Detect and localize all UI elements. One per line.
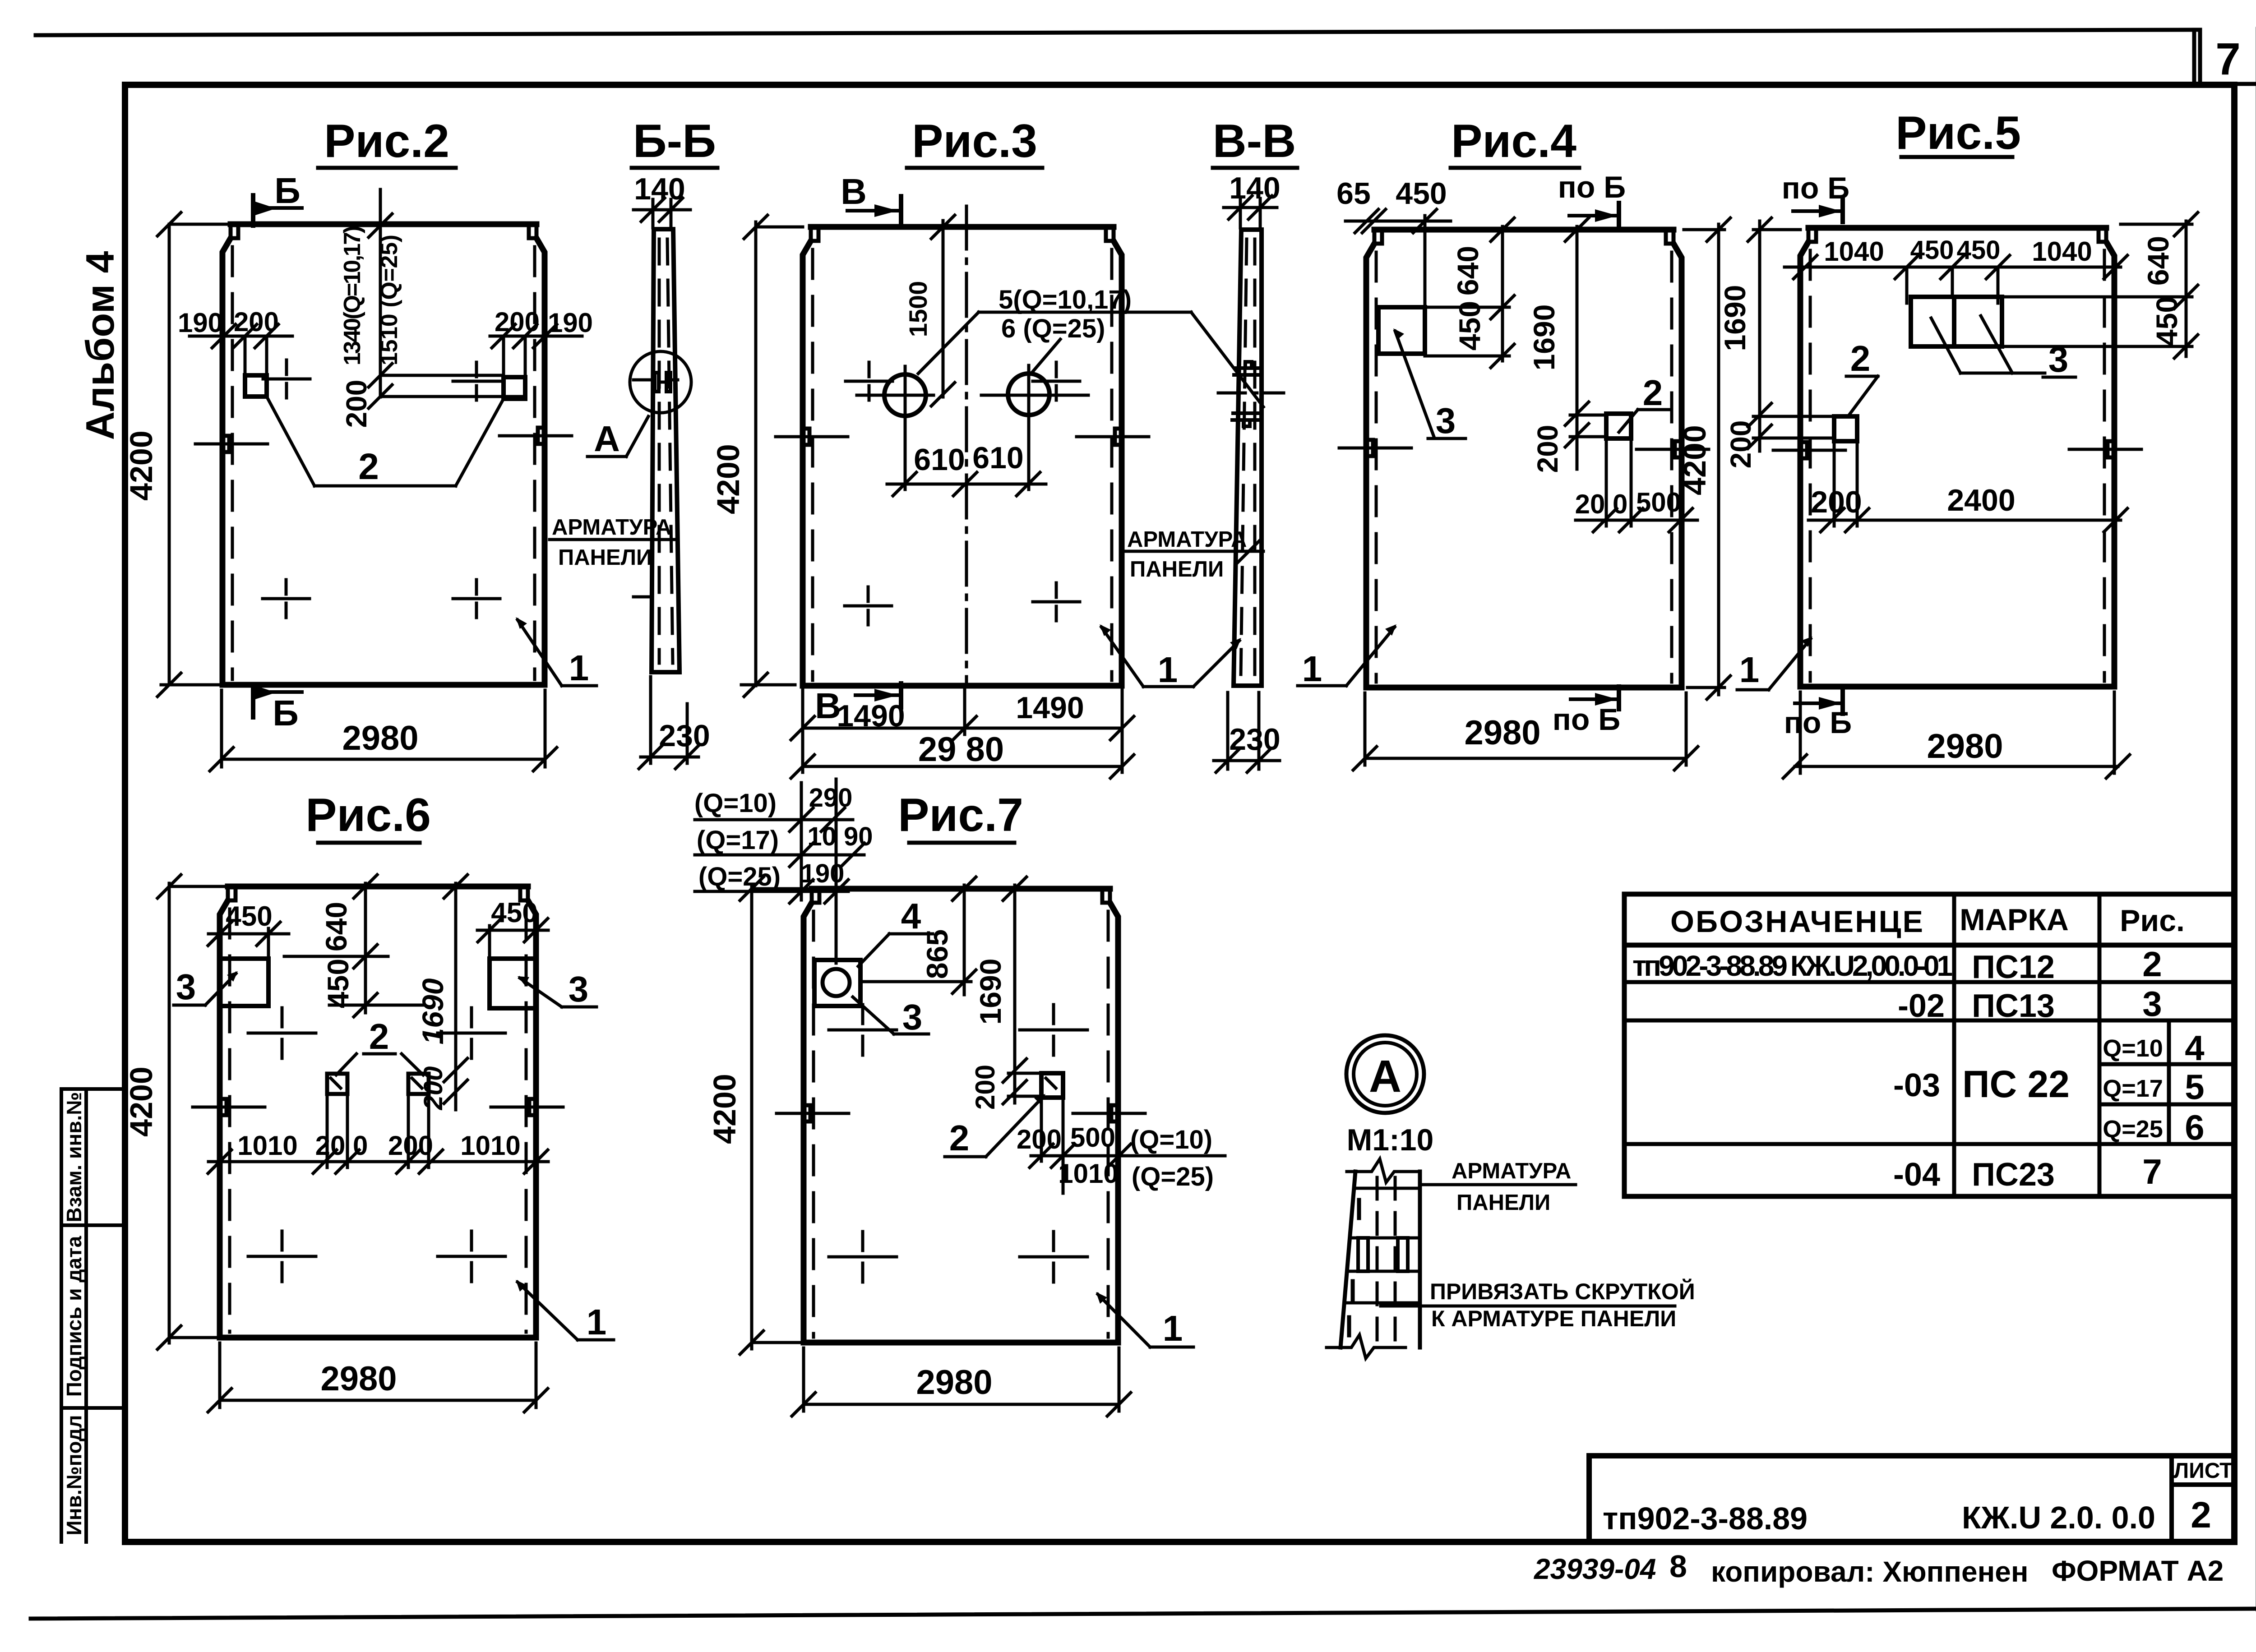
svg-text:190: 190 [178, 308, 223, 338]
svg-text:500: 500 [1070, 1122, 1115, 1153]
svg-text:тп902-3-88.89: тп902-3-88.89 [1603, 1501, 1808, 1536]
Рис.2 embed square 2 left [245, 375, 267, 397]
svg-text:ОБОЗНАЧЕНЦЕ: ОБОЗНАЧЕНЦЕ [1670, 904, 1923, 939]
Рис.5 dimension 2980 [1795, 692, 2118, 773]
Рис.6 embed square 3 right [490, 959, 536, 1008]
svg-text:610: 610 [914, 443, 965, 477]
svg-text:200: 200 [1531, 425, 1564, 473]
В-В mid connectors [1232, 362, 1262, 426]
svg-text:ПАНЕЛИ: ПАНЕЛИ [1130, 557, 1224, 581]
svg-text:200: 200 [495, 307, 540, 337]
svg-text:1010: 1010 [1058, 1158, 1118, 1189]
Рис.2 dim line [190, 336, 582, 377]
svg-text:ФОРМАТ А2: ФОРМАТ А2 [2052, 1555, 2224, 1587]
svg-text:8: 8 [1669, 1549, 1687, 1584]
Рис.4 section mark по Б bottom [1571, 697, 1619, 701]
svg-text:65: 65 [1336, 176, 1371, 211]
svg-text:1010: 1010 [237, 1131, 297, 1161]
svg-text:В: В [841, 171, 867, 212]
svg-text:АРМАТУРА: АРМАТУРА [1452, 1159, 1571, 1183]
Рис.4 panel outline [1374, 227, 1674, 233]
Б-Б tick on column [633, 595, 652, 599]
svg-text:5: 5 [2185, 1067, 2204, 1107]
svg-text:А: А [594, 419, 620, 459]
svg-text:1490: 1490 [1016, 691, 1084, 725]
svg-text:2980: 2980 [342, 719, 418, 757]
Рис.3 leader label 1 (shared with В-В) [1101, 627, 1239, 687]
svg-text:23939-04: 23939-04 [1534, 1553, 1656, 1585]
Рис.2 dimension 4200 [161, 224, 230, 685]
Рис.6 dimension 4200 [169, 883, 228, 1343]
В-В chain centreline [1218, 392, 1284, 395]
В-В dimension 230 [1214, 692, 1280, 769]
Рис.6 embed square 3 left [220, 959, 268, 1006]
svg-text:В-В: В-В [1213, 115, 1296, 167]
svg-text:АРМАТУРА: АРМАТУРА [552, 515, 671, 540]
svg-text:Рис.: Рис. [2120, 904, 2185, 938]
svg-text:Рис.7: Рис.7 [898, 789, 1023, 841]
svg-text:тп902-3-88.89 КЖ.U2,00.0-01: тп902-3-88.89 КЖ.U2,00.0-01 [1632, 950, 1953, 982]
Рис.2 panel outline [231, 221, 536, 227]
svg-text:Q=17: Q=17 [2103, 1075, 2163, 1102]
svg-text:по Б: по Б [1553, 702, 1620, 737]
svg-text:1040: 1040 [1824, 236, 1884, 267]
Рис.2 leader label 2 [267, 397, 504, 486]
Рис.2 dimension 2980 [222, 690, 545, 767]
Рис.6 embed small square 2 left [327, 1074, 347, 1094]
Рис.7 panel outline [812, 886, 1110, 892]
svg-text:-03: -03 [1893, 1067, 1940, 1103]
svg-text:7: 7 [2215, 34, 2241, 84]
svg-text:2: 2 [358, 446, 379, 487]
svg-text:1: 1 [1739, 650, 1760, 690]
svg-text:1: 1 [1302, 649, 1322, 689]
svg-text:1: 1 [1158, 650, 1178, 690]
svg-text:ПАНЕЛИ: ПАНЕЛИ [558, 545, 652, 570]
svg-text:копировал: Хюппенен: копировал: Хюппенен [1711, 1555, 2028, 1588]
svg-text:1: 1 [569, 648, 589, 688]
svg-text:КЖ.U 2.0. 0.0: КЖ.U 2.0. 0.0 [1962, 1500, 2155, 1535]
svg-text:по Б: по Б [1784, 706, 1852, 740]
svg-text:6: 6 [2185, 1107, 2204, 1147]
svg-text:3: 3 [2142, 984, 2162, 1024]
Рис.5 leader label 3 [1931, 316, 2076, 377]
outer bottom border line [31, 1609, 2256, 1619]
detail A sketch column [1341, 1172, 1420, 1347]
Рис.5 embed square 2 [1834, 416, 1857, 441]
svg-text:640: 640 [319, 902, 353, 951]
svg-text:по Б: по Б [1782, 171, 1849, 205]
В-В column outline [1234, 230, 1262, 686]
svg-text:865: 865 [920, 929, 954, 979]
svg-text:МАРКА: МАРКА [1960, 903, 2069, 937]
svg-text:4200: 4200 [124, 1066, 159, 1137]
svg-text:ПС23: ПС23 [1972, 1157, 2055, 1193]
Рис.7 dimension 2980 [804, 1348, 1119, 1411]
svg-text:1500: 1500 [904, 281, 932, 337]
top border line [36, 30, 2196, 35]
svg-text:(Q=25): (Q=25) [1132, 1162, 1214, 1191]
svg-text:2: 2 [2191, 1495, 2211, 1536]
title block outline [1589, 1456, 2234, 1542]
svg-text:500: 500 [1636, 487, 1681, 517]
svg-text:4200: 4200 [1677, 425, 1712, 495]
Рис.7 centre crosses [829, 1005, 1087, 1282]
left stamp strip [61, 1089, 125, 1542]
svg-text:1: 1 [587, 1302, 607, 1342]
svg-text:(Q=17): (Q=17) [697, 826, 779, 855]
svg-text:(Q=10): (Q=10) [694, 789, 777, 818]
svg-text:1510 (Q=25): 1510 (Q=25) [376, 235, 402, 365]
Рис.2 embed square 2 right [504, 377, 525, 399]
svg-text:ПРИВЯЗАТЬ СКРУТКОЙ: ПРИВЯЗАТЬ СКРУТКОЙ [1430, 1278, 1695, 1304]
svg-text:2: 2 [949, 1118, 970, 1158]
svg-text:(Q=25): (Q=25) [698, 862, 781, 891]
svg-text:Рис.3: Рис.3 [912, 115, 1037, 167]
svg-text:Б-Б: Б-Б [633, 115, 716, 167]
svg-text:200: 200 [388, 1131, 433, 1161]
svg-text:5(Q=10,17): 5(Q=10,17) [999, 285, 1132, 314]
Рис.6 dimension 2980 [220, 1343, 536, 1407]
svg-text:Рис.2: Рис.2 [324, 115, 449, 167]
Рис.5 section mark по Б bottom [1795, 701, 1843, 705]
svg-text:2: 2 [1643, 373, 1663, 413]
svg-text:Рис.4: Рис.4 [1451, 115, 1576, 167]
svg-text:140: 140 [1229, 171, 1280, 205]
svg-text:Взам. инв.№: Взам. инв.№ [62, 1092, 86, 1222]
Рис.6 panel outline [228, 884, 528, 890]
Рис.3 hole circle left [884, 374, 926, 416]
svg-text:3: 3 [569, 969, 589, 1009]
svg-text:-04: -04 [1893, 1157, 1940, 1193]
detail A tie rectangles [1358, 1238, 1368, 1271]
svg-text:2980: 2980 [1464, 714, 1540, 752]
svg-text:А: А [1369, 1051, 1401, 1102]
svg-text:-02: -02 [1898, 988, 1945, 1024]
Рис.4 embed square 3 [1378, 307, 1425, 354]
svg-text:ПС 22: ПС 22 [1962, 1063, 2070, 1105]
svg-text:4: 4 [901, 896, 921, 936]
svg-text:29 80: 29 80 [918, 730, 1004, 769]
svg-text:ПАНЕЛИ: ПАНЕЛИ [1456, 1191, 1550, 1215]
svg-text:200: 200 [970, 1065, 1000, 1110]
svg-text:7: 7 [2142, 1152, 2162, 1191]
title block cell ЛИСТ [2172, 1456, 2234, 1540]
Рис.3 centre crosses [845, 362, 1080, 625]
Рис.7 embed square 2 [1041, 1073, 1063, 1098]
svg-text:2400: 2400 [1947, 483, 2015, 517]
svg-text:Инв.№подл: Инв.№подл [62, 1415, 86, 1536]
sheet number box 7 [2194, 29, 2256, 84]
Рис.4 embed square 2 [1606, 414, 1631, 438]
Рис.4 leader label 3 [1395, 331, 1465, 438]
Рис.4 dimension 2980 [1365, 693, 1686, 765]
svg-text:640: 640 [1451, 246, 1484, 295]
svg-text:20 0: 20 0 [1575, 489, 1628, 519]
svg-text:230: 230 [659, 719, 710, 753]
svg-text:2980: 2980 [1927, 727, 2003, 766]
svg-text:1690: 1690 [974, 959, 1007, 1025]
svg-text:450: 450 [321, 959, 355, 1008]
Рис.2 section mark Б bottom [251, 685, 255, 717]
svg-text:450: 450 [1957, 235, 2001, 265]
svg-text:640: 640 [2141, 236, 2175, 286]
svg-text:Б: Б [274, 171, 300, 211]
svg-text:2980: 2980 [916, 1363, 992, 1402]
svg-text:Рис.6: Рис.6 [305, 789, 431, 841]
svg-text:4: 4 [2185, 1028, 2204, 1068]
svg-text:2: 2 [2142, 944, 2162, 984]
svg-text:3: 3 [902, 997, 923, 1037]
svg-text:1040: 1040 [2032, 236, 2092, 267]
svg-text:2: 2 [1850, 338, 1871, 378]
svg-text:Альбом 4: Альбом 4 [78, 251, 122, 440]
Рис.2 centreline and 1340/1510 dims [380, 189, 525, 397]
svg-text:Q=25: Q=25 [2103, 1116, 2163, 1143]
parts table grid [1624, 894, 2234, 1196]
svg-text:1: 1 [1163, 1308, 1183, 1348]
svg-text:Подпись и дата: Подпись и дата [62, 1236, 86, 1397]
Рис.3 hole circle right [1008, 374, 1049, 415]
svg-text:ЛИСТ: ЛИСТ [2174, 1459, 2233, 1483]
svg-text:Б: Б [273, 693, 299, 733]
Б-Б column outline [652, 229, 680, 672]
Рис.2 section mark Б top [251, 195, 255, 226]
Рис.6 embed small square 2 right [408, 1074, 429, 1094]
Б-Б detail circle [630, 351, 691, 413]
svg-text:К АРМАТУРЕ ПАНЕЛИ: К АРМАТУРЕ ПАНЕЛИ [1431, 1306, 1676, 1331]
svg-text:(Q=10): (Q=10) [1130, 1125, 1212, 1154]
svg-text:190: 190 [548, 308, 593, 338]
svg-text:2: 2 [369, 1016, 389, 1057]
svg-text:ПС12: ПС12 [1972, 949, 2055, 985]
Б-Б dimension 230 [641, 677, 698, 763]
Рис.5 embed double square 3 [1911, 297, 2002, 346]
svg-text:М1:10: М1:10 [1347, 1123, 1434, 1157]
svg-text:610: 610 [972, 441, 1023, 475]
svg-text:1690: 1690 [1718, 285, 1752, 351]
svg-text:Q=10: Q=10 [2103, 1035, 2163, 1062]
Рис.3 dimension 4200 [741, 222, 803, 686]
Рис.3 panel outline [811, 224, 1114, 230]
svg-text:200: 200 [340, 380, 373, 428]
svg-text:450: 450 [1396, 176, 1447, 211]
svg-text:450: 450 [1910, 235, 1954, 265]
svg-text:450: 450 [226, 901, 272, 932]
svg-text:10 90: 10 90 [807, 822, 873, 851]
svg-text:20 0: 20 0 [315, 1131, 368, 1161]
Рис.3 dim 1500 [942, 221, 945, 397]
svg-text:4200: 4200 [711, 444, 746, 514]
svg-text:1340(Q=10,17): 1340(Q=10,17) [339, 226, 365, 365]
svg-text:230: 230 [1229, 722, 1280, 757]
svg-text:3: 3 [1436, 401, 1456, 441]
svg-text:Рис.5: Рис.5 [1895, 107, 2021, 159]
Рис.4 dimension 4200 [1684, 224, 1724, 695]
svg-text:1690: 1690 [1527, 305, 1561, 371]
svg-text:6 (Q=25): 6 (Q=25) [1001, 314, 1105, 343]
svg-text:4200: 4200 [124, 430, 159, 501]
svg-text:4200: 4200 [707, 1074, 742, 1144]
Рис.6 centre crosses [248, 1008, 505, 1282]
svg-text:АРМАТУРА: АРМАТУРА [1127, 527, 1247, 552]
detail A circle mark [1346, 1035, 1424, 1113]
svg-text:2980: 2980 [320, 1360, 397, 1398]
Рис.2 leader label 1 [518, 620, 596, 686]
svg-text:по Б: по Б [1558, 170, 1626, 204]
svg-text:1010: 1010 [460, 1131, 520, 1161]
Рис.5 panel outline [1808, 225, 2106, 231]
Рис.2 centre crosses [263, 360, 500, 618]
Рис.7 dimension 4200 [752, 885, 812, 1349]
svg-text:200: 200 [1017, 1124, 1062, 1154]
Рис.3 chain centreline [965, 206, 968, 686]
Б-Б embed H detail [633, 378, 678, 382]
Рис.7 embed square 3 with hole 4 [814, 960, 860, 1006]
Рис.3 hole centrelines [857, 365, 1088, 425]
svg-text:3: 3 [176, 967, 196, 1007]
svg-text:ПС13: ПС13 [1972, 988, 2055, 1024]
